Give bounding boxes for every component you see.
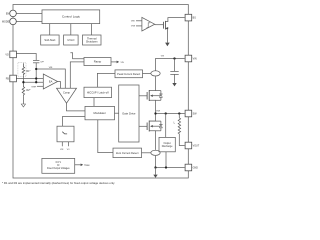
block Ton on-timer <box>57 126 74 142</box>
pin GND <box>185 164 192 171</box>
capacitor CFF <box>33 59 39 61</box>
package outline <box>13 5 188 179</box>
wire HICCUP to Modulator <box>93 98 95 107</box>
svg-text:VO: VO <box>5 53 9 56</box>
pin VIN <box>185 55 192 62</box>
node FB junction dots <box>35 77 37 79</box>
wire EN to Control Logic <box>16 12 42 14</box>
svg-text:Shutdown: Shutdown <box>86 39 98 43</box>
wire VIN pin to high-side drain <box>156 59 185 71</box>
node VIN cap junction <box>173 57 175 59</box>
svg-text:Or: Or <box>57 164 60 167</box>
wire R1 bottom to divider node <box>22 75 24 82</box>
block Thermal Shutdown <box>83 35 102 45</box>
hysteresis glyph <box>147 23 151 28</box>
ground power stage <box>155 168 157 175</box>
wire VFB to Comp <box>36 69 65 88</box>
svg-text:VIN: VIN <box>193 58 197 61</box>
current sense element low side <box>151 150 160 155</box>
svg-text:EN: EN <box>6 12 10 15</box>
wire gate drive to LS gate <box>139 125 147 127</box>
waveform glyph inside Ton <box>62 132 67 134</box>
wire divider node to error amp <box>23 81 43 83</box>
wire ground rail to GND pin <box>156 167 185 169</box>
pin EN <box>10 10 17 17</box>
svg-text:R1*: R1* <box>26 70 30 73</box>
wire Control Logic to Thermal Shutdown <box>91 24 93 35</box>
wire R2 bottom to ground <box>22 96 24 104</box>
transistor bootstrap switch <box>163 21 165 30</box>
wire Ramp VIN arrow <box>111 61 117 63</box>
block Modulator <box>85 106 115 119</box>
svg-text:Control Logic: Control Logic <box>62 15 81 19</box>
comparator BS charge <box>142 17 155 31</box>
transistor Q2 low-side MOSFET <box>147 121 149 132</box>
svg-text:Zero Current Detect: Zero Current Detect <box>116 151 139 155</box>
wire Control Logic to UVLO <box>70 24 72 35</box>
svg-text:VSW: VSW <box>156 111 161 113</box>
svg-text:VOUT: VOUT <box>193 145 200 148</box>
svg-text:Modulator: Modulator <box>93 111 106 115</box>
wire Modulator to Zero Current Detect <box>98 120 113 153</box>
pin BS <box>185 14 192 21</box>
wire Ton to Modulator <box>63 117 86 127</box>
wire cap bottom to FB node <box>35 63 37 82</box>
pin SW <box>185 110 192 117</box>
pin FB <box>10 75 17 82</box>
ground R2 <box>21 104 25 107</box>
ground bootstrap switch <box>165 43 170 47</box>
block Control Logic <box>42 10 100 24</box>
node ground junction 2 <box>165 166 167 168</box>
svg-text:Fixed Output Voltages: Fixed Output Voltages <box>47 167 70 170</box>
wire Control Logic to Soft-Start <box>49 24 51 35</box>
svg-text:BS: BS <box>193 17 197 20</box>
resistor R2 <box>22 82 24 96</box>
svg-text:VSW: VSW <box>131 26 136 28</box>
wire Ton VO stub <box>68 142 70 147</box>
current sense element high side <box>151 71 160 76</box>
block reference 0.6V <box>42 158 75 173</box>
svg-text:GND: GND <box>193 167 199 170</box>
block Peak Current Detect <box>115 70 143 78</box>
wire VREF stub to error amp <box>37 85 43 87</box>
block Zero Current Detect <box>113 148 142 158</box>
wire SW node to pin <box>156 113 185 115</box>
wire ZCD to sense element <box>142 152 152 154</box>
transistor Q1 high-side MOSFET <box>147 90 149 101</box>
wire comparator output to switch gate <box>155 24 164 26</box>
svg-text:VREF: VREF <box>84 164 90 167</box>
wire Peak Current Detect to HICCUP <box>97 73 115 87</box>
block Soft-Start <box>41 35 59 45</box>
wire comparator input VBS <box>136 20 142 22</box>
resistor R1 <box>22 63 24 75</box>
svg-text:Comp: Comp <box>63 91 70 95</box>
block Gate Drive <box>119 85 139 142</box>
svg-text:* R1 and R2 are implemented in: * R1 and R2 are implemented internally (… <box>2 181 115 185</box>
wire Comp output to Modulator <box>67 103 86 111</box>
wire MODE to Control Logic <box>16 20 42 22</box>
wire sense to ground rail <box>155 156 157 168</box>
wire SW to Output Discharge <box>165 114 167 138</box>
inductor L <box>178 114 180 118</box>
svg-text:Soft-Start: Soft-Start <box>44 38 55 42</box>
wire gate drive to HS gate <box>139 95 147 97</box>
pin VOUT <box>185 142 192 149</box>
wire Output Discharge to ground rail <box>165 152 167 168</box>
wire Peak Current Detect to sense element <box>143 72 152 74</box>
block Output Discharge <box>159 137 175 151</box>
wire Ramp to Comp <box>70 62 84 88</box>
comparator Comp <box>57 88 77 103</box>
svg-text:VREF: VREF <box>31 87 36 89</box>
block Ramp <box>84 58 111 66</box>
svg-text:UVLO: UVLO <box>67 38 74 42</box>
wire sense to high-side FET <box>155 76 157 90</box>
capacitor VIN bypass <box>174 59 176 72</box>
wire VO pin to feedforward cap <box>16 54 36 61</box>
wire Ramp upper-left stub <box>70 53 84 59</box>
svg-text:Gate Drive: Gate Drive <box>122 112 136 116</box>
wire FB pin to error amp <box>16 78 43 80</box>
ground VIN cap <box>172 83 176 86</box>
svg-text:Discharge: Discharge <box>162 145 173 148</box>
pin VO <box>10 51 17 58</box>
svg-text:MODE: MODE <box>2 20 10 23</box>
svg-text:R2*: R2* <box>26 89 30 92</box>
wire Ton VIN stub <box>61 142 63 147</box>
block UVLO <box>64 35 79 45</box>
wire VREF arrow <box>75 164 81 166</box>
pin MODE <box>10 18 17 25</box>
svg-text:0.6 V: 0.6 V <box>56 162 62 164</box>
wire Modulator to Gate Drive <box>115 112 119 114</box>
svg-text:Peak Current Detect: Peak Current Detect <box>117 72 140 76</box>
block HICCUP Latch-off <box>84 87 112 97</box>
wire EA output to Comp <box>58 82 61 89</box>
dashed box around R1 (internal) <box>18 63 26 77</box>
node SW junction <box>154 112 156 114</box>
svg-text:HICCUP / Latch-off: HICCUP / Latch-off <box>87 90 109 94</box>
svg-text:CFF: CFF <box>40 62 44 64</box>
svg-text:EA: EA <box>49 80 53 84</box>
svg-text:Ramp: Ramp <box>94 60 102 64</box>
wire comparator input VSW <box>136 25 142 27</box>
op-amp EA error amplifier <box>43 74 57 89</box>
svg-text:FB: FB <box>6 78 9 81</box>
node ground junction 1 <box>154 166 156 168</box>
